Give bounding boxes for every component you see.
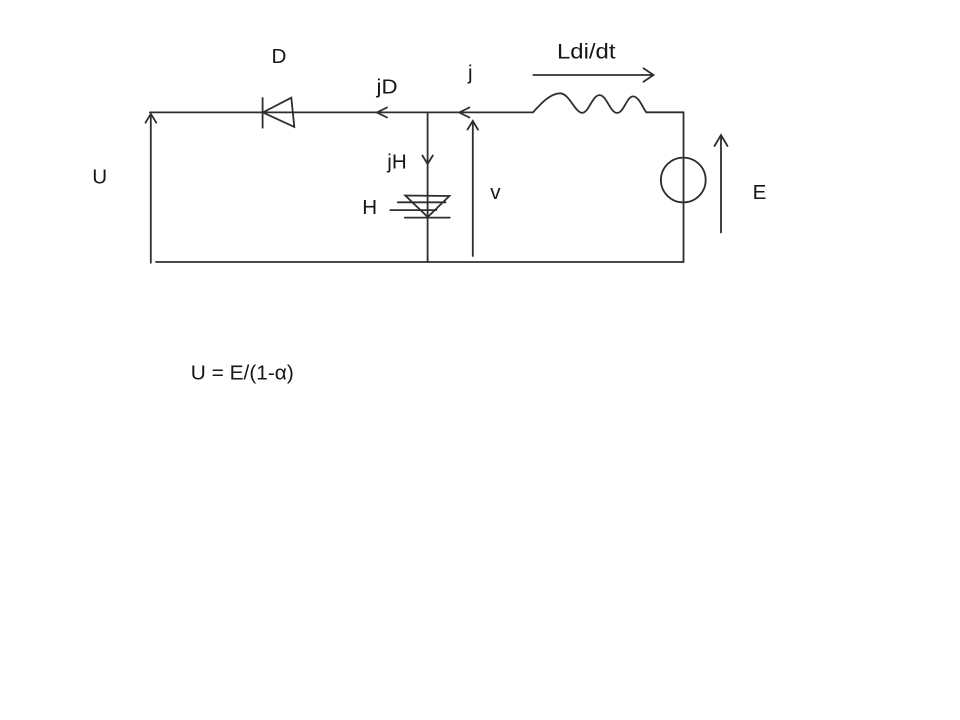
svg-text:U: U: [92, 165, 107, 188]
voltage arrow E (right): [715, 135, 728, 233]
wire top right segment: [646, 111, 683, 113]
diode D: [263, 98, 295, 128]
wire top horizontal: [150, 111, 533, 113]
svg-text:j: j: [467, 62, 473, 85]
voltage arrow U (left side): [146, 114, 157, 263]
switch H symbol: [390, 196, 450, 218]
arrow Ldi/dt: [533, 68, 653, 81]
voltage arrow v (middle): [468, 121, 479, 256]
current arrow jD (on top wire): [377, 108, 387, 118]
svg-text:E: E: [753, 181, 767, 204]
svg-text:jD: jD: [375, 76, 397, 99]
current arrow jH (on middle branch): [422, 156, 432, 165]
source E circle: [661, 158, 706, 203]
wire right vertical: [683, 112, 685, 262]
wire middle branch jH: [427, 112, 429, 262]
svg-text:U = E/(1-α): U = E/(1-α): [191, 361, 294, 384]
svg-text:H: H: [362, 196, 377, 219]
svg-text:D: D: [272, 45, 287, 68]
svg-text:jH: jH: [386, 151, 406, 174]
wire bottom horizontal: [156, 261, 684, 263]
svg-text:v: v: [490, 181, 501, 204]
inductor L: [533, 93, 646, 113]
current arrow j (on top wire): [459, 108, 469, 118]
svg-text:Ldi/dt: Ldi/dt: [557, 40, 616, 64]
